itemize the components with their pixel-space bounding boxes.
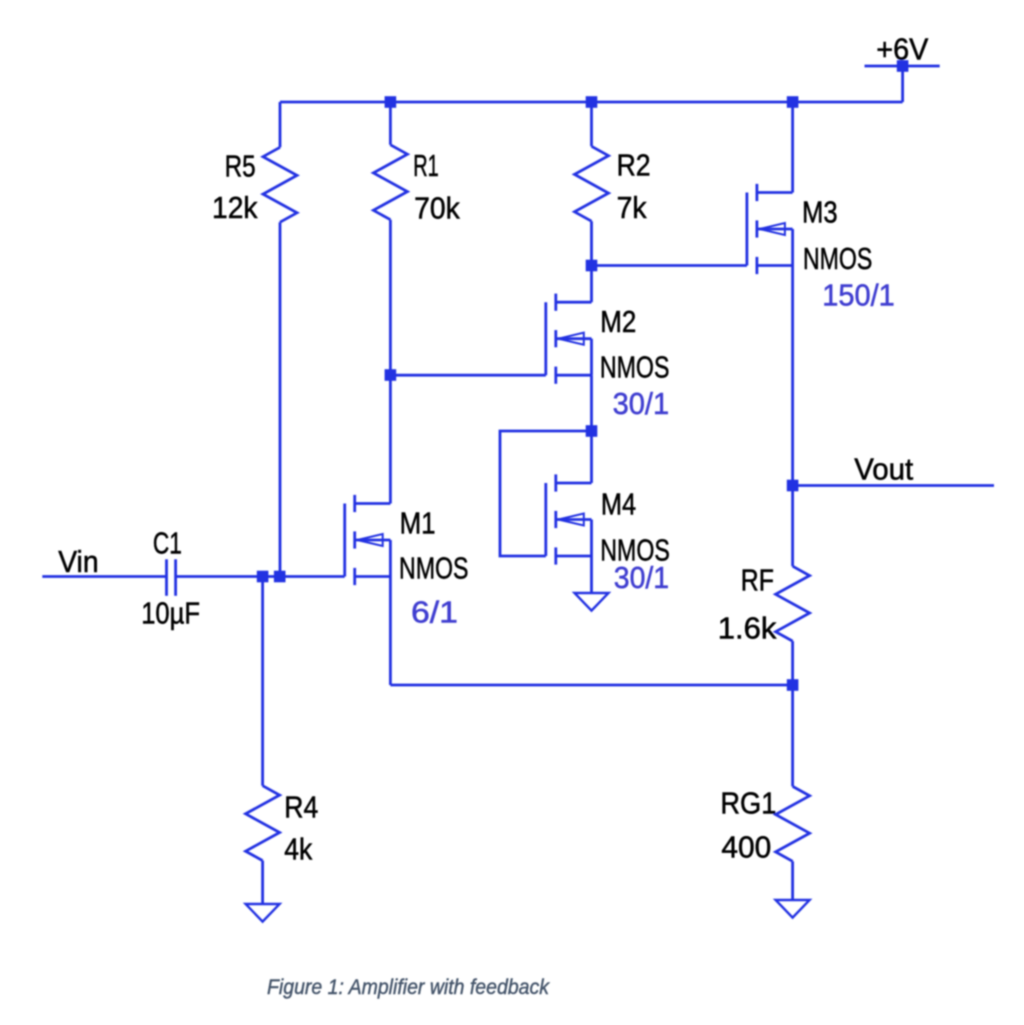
- wire R5 bottom to Vin node: [279, 222, 282, 576]
- svg-text:Vin: Vin: [58, 544, 98, 579]
- svg-text:M2: M2: [600, 304, 636, 339]
- svg-text:10µF: 10µF: [141, 596, 200, 631]
- transistor M1: [345, 495, 391, 585]
- svg-text:M4: M4: [601, 487, 636, 522]
- wire RF bottom: [791, 641, 794, 685]
- svg-text:70k: 70k: [414, 190, 460, 225]
- transistor M2: [546, 294, 592, 384]
- wire R2 bottom: [590, 221, 593, 265]
- svg-text:C1: C1: [153, 526, 182, 561]
- svg-text:30/1: 30/1: [613, 386, 670, 421]
- wire R5 top: [279, 102, 282, 147]
- node R2 bottom / M3 gate: [586, 260, 598, 272]
- wire R2 top: [590, 102, 593, 146]
- node Vout junction: [787, 480, 799, 492]
- node M3 drain junction on rail: [787, 96, 799, 108]
- svg-text:6/1: 6/1: [411, 595, 458, 630]
- svg-text:4k: 4k: [284, 832, 312, 867]
- svg-text:+6V: +6V: [876, 31, 928, 66]
- svg-text:400: 400: [721, 830, 771, 865]
- wire R1 top: [389, 102, 392, 145]
- node RF / RG1 feedback junction: [787, 679, 799, 691]
- ground R4: [246, 904, 280, 922]
- node M2 source / M4 drain: [586, 425, 598, 437]
- resistor R1: [373, 145, 407, 220]
- svg-text:RG1: RG1: [720, 785, 776, 820]
- wire Vin to C1: [42, 575, 166, 578]
- wire M4 drain: [590, 431, 593, 483]
- wire M2 source: [590, 375, 593, 431]
- svg-text:7k: 7k: [617, 190, 647, 225]
- ground M4 source: [575, 593, 609, 611]
- node Vin / R4 junction: [257, 571, 269, 583]
- wire M3 drain: [791, 102, 794, 193]
- svg-text:NMOS: NMOS: [600, 350, 670, 385]
- node R1 top junction: [385, 96, 397, 108]
- svg-text:150/1: 150/1: [822, 277, 895, 312]
- wire +6V supply bar: [865, 65, 940, 68]
- wire M3 source down to RF: [791, 266, 794, 567]
- wire +6V drop to rail: [901, 66, 904, 102]
- resistor RG1: [776, 786, 810, 861]
- svg-text:Figure 1: Amplifier with feedb: Figure 1: Amplifier with feedback: [267, 976, 550, 999]
- svg-text:12k: 12k: [212, 190, 258, 225]
- resistor RF: [776, 566, 810, 641]
- wire R1 bottom to M1 drain: [389, 220, 392, 504]
- wire RG1 top: [791, 685, 794, 786]
- resistor R5: [263, 147, 297, 222]
- node +6V junction: [897, 60, 909, 72]
- svg-text:R4: R4: [284, 789, 318, 824]
- svg-text:M1: M1: [400, 506, 436, 541]
- transistor M4: [546, 474, 592, 564]
- svg-text:R2: R2: [617, 148, 651, 183]
- wire top supply rail: [280, 101, 903, 104]
- wire Vout: [793, 484, 994, 487]
- wire RG1 bottom: [791, 861, 794, 900]
- wire R4 top: [261, 577, 264, 786]
- wire M1 source down: [389, 577, 392, 686]
- wire M4 source: [590, 556, 593, 593]
- node R2 top junction: [586, 96, 598, 108]
- wire C1 to M1 gate: [176, 575, 345, 578]
- capacitor C1: [167, 559, 176, 596]
- svg-text:RF: RF: [741, 562, 774, 597]
- svg-text:R1: R1: [413, 148, 439, 183]
- svg-text:1.6k: 1.6k: [718, 611, 777, 646]
- svg-text:Vout: Vout: [854, 451, 913, 486]
- wire feedback to RF/RG1 node: [390, 684, 792, 687]
- svg-text:30/1: 30/1: [614, 560, 669, 595]
- resistor R4: [246, 786, 280, 861]
- wire M3 gate from R2 node: [592, 264, 747, 267]
- wire M2 gate from R1 node: [390, 374, 545, 377]
- node Vin / R5 junction: [274, 571, 286, 583]
- svg-text:NMOS: NMOS: [399, 551, 469, 586]
- wire R4 bottom: [261, 861, 264, 904]
- node R1 / M2 gate junction: [385, 369, 397, 381]
- svg-text:NMOS: NMOS: [803, 241, 872, 276]
- wire M4 gate loop: [500, 431, 592, 556]
- svg-text:M3: M3: [802, 194, 838, 229]
- resistor R2: [575, 146, 609, 221]
- ground RG1: [776, 900, 810, 918]
- transistor M3: [747, 184, 793, 274]
- svg-text:R5: R5: [225, 148, 256, 183]
- wire M2 drain: [590, 266, 593, 303]
